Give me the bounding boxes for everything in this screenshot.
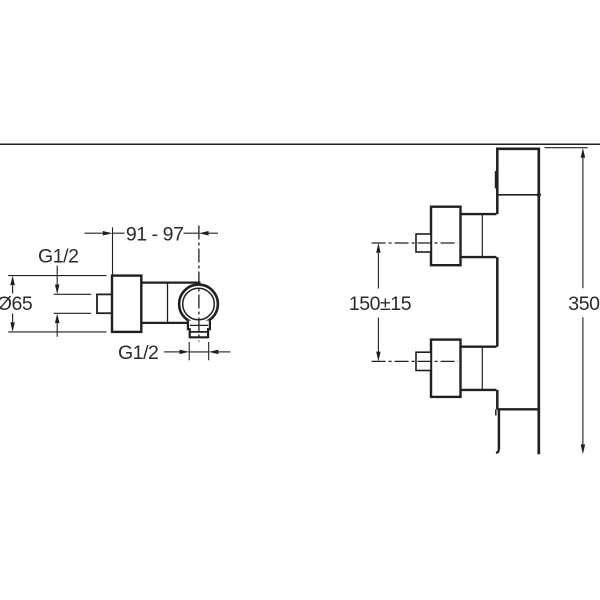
right view: bottom neck bottom edge	[461, 389, 497, 391]
right view: top valve block	[431, 207, 461, 266]
right view: bottom neck top edge	[461, 346, 497, 348]
right view: bottom hook	[496, 449, 499, 453]
left view: wall flange block	[112, 276, 141, 332]
dim 150: down arrow	[377, 318, 379, 352]
right view: bottom neck separation line	[481, 347, 483, 390]
right view: top neck bottom edge	[461, 256, 497, 258]
dim G1/2 inlet: extension lines	[54, 294, 91, 313]
svg-text:G1/2: G1/2	[118, 342, 158, 364]
right view: top neck top edge	[461, 213, 497, 215]
left view: valve outer circle	[179, 285, 218, 324]
dim G1/2 outlet: dimension line	[189, 351, 209, 353]
svg-text:G1/2: G1/2	[38, 245, 78, 267]
dim G1/2 outlet: extension lines	[189, 342, 209, 360]
dim O65: extension lines	[8, 276, 106, 332]
svg-text:150±15: 150±15	[349, 293, 412, 315]
right view: top cap line	[497, 194, 539, 196]
dim G1/2 outlet: left arrow	[164, 351, 180, 353]
dim 350: extension line	[545, 147, 588, 149]
dim 350: down arrow and shaft	[582, 317, 584, 444]
svg-text:350: 350	[568, 293, 600, 315]
right view: bottom cap line	[497, 408, 539, 410]
svg-text:Ø65: Ø65	[0, 293, 33, 315]
dim G1/2 outlet: right arrow	[218, 351, 230, 353]
svg-text:91 - 97: 91 - 97	[126, 224, 184, 246]
right view: left stub upper	[495, 171, 497, 188]
right view: column left edge upper	[496, 149, 499, 214]
dim O65: down arrow and shaft	[12, 314, 14, 323]
right view: bottom valve knob	[416, 352, 431, 370]
dim 91-97: left extension line	[112, 227, 114, 275]
dim 350: up arrow and shaft	[581, 148, 586, 158]
right view: column top edge	[496, 147, 540, 150]
left view: inlet square connector	[97, 294, 112, 313]
right view: column left edge below cap	[498, 409, 501, 449]
dim G1/2 inlet: upper shaft and down arrow	[56, 266, 58, 285]
dim 150: up arrow	[376, 243, 381, 253]
dim 91-97: left arrow	[85, 232, 103, 234]
left view: body separation line	[167, 283, 169, 323]
right view: top valve center line	[372, 242, 458, 244]
right view: cap junction dot	[537, 193, 541, 197]
dim G1/2 inlet: lower shaft and up arrow	[56, 323, 58, 337]
right view: column right edge	[537, 149, 540, 454]
left view: body top edge	[141, 281, 200, 283]
dim 91-97: right arrow	[209, 232, 218, 234]
right view: bottom valve center line	[372, 360, 458, 362]
right view: column left edge lower	[496, 390, 499, 410]
right view: top valve knob	[416, 234, 431, 252]
right view: left stub lower	[495, 409, 497, 415]
dim 91-97: dimension line segments	[113, 232, 199, 234]
left view: outlet inner line 2	[190, 331, 208, 333]
dim O65: up arrow and shaft	[10, 276, 15, 286]
wall line	[0, 143, 600, 145]
left view: outlet nut	[188, 321, 210, 338]
left view: valve inner circle	[183, 288, 215, 320]
right view: column left edge middle	[496, 257, 499, 347]
left view: vertical center line	[198, 226, 200, 342]
right view: bottom valve block	[431, 340, 461, 397]
right view: top neck separation line	[481, 214, 483, 257]
left view: body bottom edge	[141, 322, 188, 324]
left view: outlet inner line 1	[190, 324, 208, 326]
